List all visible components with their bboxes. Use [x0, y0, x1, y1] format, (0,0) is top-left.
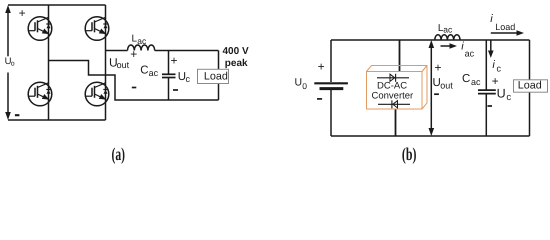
capacitor Cac: [162, 73, 176, 75]
current arrow iac: [441, 43, 458, 49]
wire converter bottom: [395, 109, 397, 136]
transistor Q3: [28, 82, 52, 106]
capacitor Cac b: [478, 89, 496, 91]
current arrow iLoad: [491, 30, 524, 36]
svg-text:C: C: [462, 73, 470, 85]
svg-text:C: C: [140, 65, 148, 77]
svg-text:ac: ac: [465, 49, 475, 59]
svg-text:ac: ac: [137, 36, 147, 46]
label - (Uc b): [488, 105, 493, 107]
wire midpoint A to output minus: [49, 61, 219, 101]
wire left leg: [48, 5, 50, 120]
svg-text:(a): (a): [112, 144, 126, 164]
svg-text:+: +: [19, 6, 26, 20]
svg-text:ac: ac: [443, 24, 453, 34]
wire bottom rail: [8, 119, 106, 121]
wire right leg: [105, 5, 107, 120]
wire converter top: [399, 40, 401, 72]
svg-text:out: out: [117, 60, 130, 70]
wire bottom rail b: [331, 135, 530, 137]
svg-text:c: c: [497, 64, 502, 74]
battery U0: [314, 83, 348, 88]
svg-text:Converter: Converter: [372, 91, 414, 102]
transistor Q2: [85, 17, 109, 41]
label - (Uo): [15, 114, 20, 116]
svg-text:(b): (b): [402, 144, 417, 164]
svg-text:Load: Load: [518, 80, 542, 92]
wire midpoint B to inductor: [106, 50, 128, 52]
svg-text:+: +: [171, 53, 178, 67]
inductor Lac b: [435, 35, 460, 40]
wire left rail upper: [330, 40, 332, 82]
svg-text:Load: Load: [204, 70, 228, 82]
wire top rail b: [331, 39, 530, 41]
svg-text:U: U: [295, 76, 303, 88]
label - (Uout b): [434, 93, 439, 95]
load box: [198, 69, 229, 83]
inductor Lac: [128, 45, 155, 51]
label - (Uout): [132, 87, 137, 89]
transistor Q1: [28, 17, 52, 41]
load box b: [514, 80, 548, 93]
svg-text:ac: ac: [149, 68, 159, 78]
current arrow ic: [488, 40, 494, 58]
svg-text:c: c: [186, 74, 191, 84]
label - (Uc): [173, 89, 178, 91]
svg-text:0: 0: [302, 81, 307, 91]
transistor Q4: [85, 82, 109, 106]
wire load branch: [218, 51, 220, 101]
svg-text:out: out: [440, 81, 453, 91]
svg-text:Load: Load: [495, 22, 515, 32]
wire capacitor branch b bottom: [485, 94, 487, 136]
wire capacitor branch bottom: [168, 78, 170, 101]
wire left rail lower: [330, 90, 332, 136]
converter 3D box: [367, 66, 428, 110]
wire inductor to load corner: [155, 50, 219, 52]
voltage arrow Uo (double-headed): [5, 5, 11, 120]
svg-text:ac: ac: [471, 77, 481, 87]
svg-text:+: +: [435, 61, 442, 75]
label Uo: [3, 56, 16, 73]
wire load branch b: [529, 40, 531, 136]
svg-text:c: c: [506, 92, 511, 103]
voltage arrow Uout (double-headed): [429, 40, 435, 136]
wire capacitor branch top: [168, 51, 170, 75]
svg-text:o: o: [11, 61, 15, 68]
label - (U0): [317, 98, 322, 100]
wire capacitor branch b top: [485, 40, 487, 90]
svg-text:peak: peak: [225, 58, 248, 69]
svg-text:400 V: 400 V: [223, 46, 249, 57]
svg-text:+: +: [130, 47, 137, 61]
svg-text:U: U: [497, 87, 506, 101]
svg-text:+: +: [318, 60, 325, 74]
wire top rail: [8, 4, 106, 6]
diode D1 (top, pointing right): [377, 74, 409, 82]
diode D2 (bottom, pointing left): [378, 100, 410, 108]
